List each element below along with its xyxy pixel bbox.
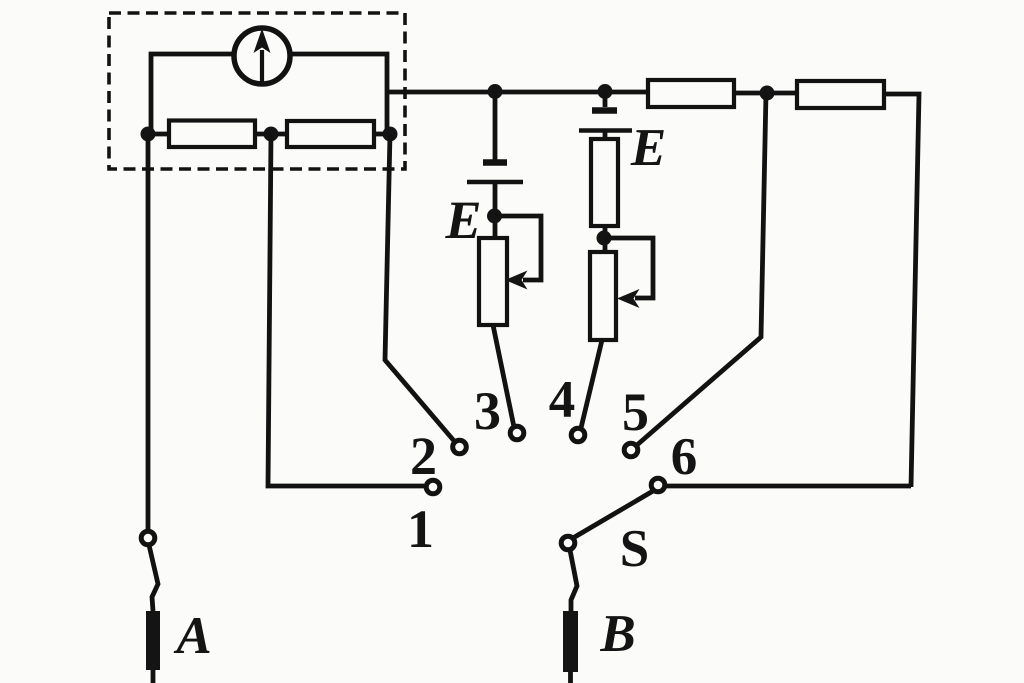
- node (probe A hinge): [141, 531, 155, 545]
- wire: [734, 91, 797, 96]
- resistor (left, in box): [169, 121, 255, 148]
- wire (left rail to probe A): [146, 134, 151, 530]
- node (left junction in box): [141, 127, 156, 142]
- wire (to contact 2): [385, 134, 455, 442]
- resistor (top rail, right): [797, 81, 884, 108]
- wire: [291, 54, 387, 134]
- svg-text:6: 6: [671, 428, 698, 486]
- node (middle junction in box): [264, 127, 279, 142]
- wire: [493, 325, 514, 427]
- wire: [151, 54, 233, 134]
- svg-text:S: S: [620, 520, 649, 578]
- wire (probe B lead): [570, 550, 577, 611]
- node (right junction in box): [383, 127, 398, 142]
- node (branch 1 top): [488, 84, 503, 99]
- probe B (test rod): [563, 611, 578, 672]
- wire: [581, 340, 602, 428]
- node (branch 2 top): [598, 84, 613, 99]
- wire (rheostat 2 tap): [604, 238, 653, 308]
- wire (to contact 5): [637, 93, 766, 445]
- node 6 (contact): [651, 478, 665, 492]
- wire: [603, 226, 608, 252]
- wire: [493, 91, 498, 160]
- wire (probe A lead): [149, 545, 158, 611]
- wire: [568, 672, 573, 683]
- wire (contact 6 to right rail): [666, 484, 911, 489]
- battery E (cell 1 short plate): [483, 159, 507, 166]
- resistor (branch 2 series): [591, 139, 618, 226]
- wire: [387, 90, 648, 95]
- svg-text:4: 4: [549, 371, 576, 429]
- node S (switch pivot): [561, 536, 575, 550]
- svg-text:E: E: [444, 190, 481, 250]
- battery E (cell 2 short plate): [592, 107, 617, 114]
- wire: [148, 132, 169, 137]
- svg-text:A: A: [173, 607, 211, 665]
- dashed box (ohmmeter assembly): [109, 13, 405, 169]
- wire (switch lever S): [573, 491, 653, 538]
- svg-text:E: E: [630, 119, 666, 177]
- wire: [493, 184, 498, 238]
- node (battery 1 to rheostat): [487, 209, 502, 224]
- battery E (cell 2 long plate): [579, 128, 632, 133]
- probe A (test rod): [146, 611, 160, 670]
- svg-text:B: B: [599, 605, 635, 663]
- svg-text:1: 1: [407, 499, 434, 559]
- node (branch 2 middle): [597, 231, 612, 246]
- svg-text:2: 2: [410, 426, 437, 486]
- node 5 (contact): [624, 443, 638, 457]
- wire: [255, 132, 287, 137]
- node 1 (contact): [426, 480, 440, 494]
- resistor (top rail, left): [648, 80, 734, 107]
- wire: [151, 670, 156, 683]
- svg-text:5: 5: [622, 382, 649, 442]
- wire: [603, 132, 608, 139]
- battery E (cell 1 long plate): [467, 180, 523, 185]
- rheostat (branch 2): [590, 252, 616, 340]
- wire: [884, 94, 919, 487]
- node (top rail junction): [760, 86, 775, 101]
- wire (to contact 1): [268, 134, 424, 486]
- galvanometer G: [234, 28, 290, 84]
- wire: [374, 132, 390, 137]
- resistor (right, in box): [287, 121, 374, 147]
- node 3 (contact): [510, 426, 524, 440]
- svg-text:3: 3: [474, 381, 501, 441]
- wire: [603, 91, 608, 107]
- node 4 (contact): [571, 428, 585, 442]
- rheostat (branch 1): [479, 238, 507, 325]
- wire (rheostat 1 tap): [495, 216, 541, 290]
- node 2 (contact): [453, 440, 467, 454]
